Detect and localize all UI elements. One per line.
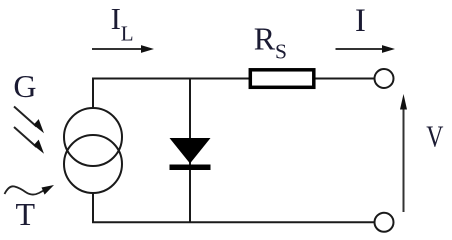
svg-text:T: T <box>16 196 36 232</box>
wire top rail left segment (node A to resistor) <box>92 78 250 80</box>
terminal bottom (open circle) <box>375 213 394 232</box>
wire left branch lower (current source to bottom rail) <box>92 193 94 224</box>
svg-text:I: I <box>355 3 366 39</box>
current source IL (overlapping circles) <box>64 108 122 193</box>
label RS <box>254 21 287 64</box>
wire diode branch vertical <box>189 78 191 223</box>
terminal top (open circle) <box>375 69 394 88</box>
arrow V voltage direction <box>400 94 407 212</box>
arrow T temperature (wavy with arrowhead) <box>5 185 55 195</box>
svg-text:S: S <box>275 40 287 64</box>
resistor RS (box) <box>250 70 313 88</box>
wire left branch upper (top rail down to current source) <box>92 78 94 110</box>
arrow G irradiance 2 <box>14 127 44 154</box>
svg-text:R: R <box>254 21 276 57</box>
wire bottom rail <box>92 221 375 223</box>
arrow IL current direction <box>92 45 154 53</box>
svg-text:L: L <box>121 22 134 46</box>
diode D1 <box>170 138 211 170</box>
svg-text:I: I <box>111 1 121 36</box>
label IL <box>111 1 134 46</box>
svg-text:G: G <box>13 68 36 104</box>
svg-text:V: V <box>426 120 443 153</box>
arrow G irradiance 1 <box>14 107 44 134</box>
arrow I current direction <box>336 45 396 53</box>
wire top rail right segment (resistor to terminal) <box>314 78 375 80</box>
